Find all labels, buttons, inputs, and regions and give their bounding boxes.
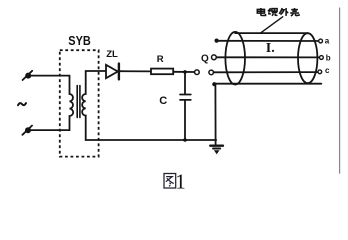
switch terminal Q (212, 55, 217, 60)
svg-text:I.: I. (266, 41, 275, 56)
svg-text:SYB: SYB (68, 33, 91, 48)
transformer primary winding + wires to terminals (30, 76, 73, 131)
svg-text:b: b (326, 53, 331, 62)
wire c (to cable) (214, 71, 319, 73)
connector terminal (right of gap) (209, 70, 214, 75)
glyph 电 (257, 8, 265, 16)
capacitor C (180, 72, 191, 141)
wire b (to cable) (216, 56, 319, 58)
svg-text:Q: Q (201, 54, 209, 65)
cable shell right ellipse (298, 33, 317, 83)
terminal J2 (AC input bottom) (22, 126, 32, 135)
svg-text:a: a (325, 37, 330, 46)
glyph 图 (164, 174, 176, 189)
cable shell cylinder bottom line (214, 83, 321, 85)
AC source label ~ (18, 103, 26, 105)
wire diode to resistor (120, 70, 151, 72)
ground symbol (210, 146, 223, 155)
wire resistor to terminal circle (173, 71, 194, 73)
wire a (to cable) (217, 40, 319, 42)
connector terminal (left of gap) (195, 70, 200, 75)
transformer core (77, 86, 80, 118)
terminal c (right) (318, 70, 322, 74)
terminal a (right) (319, 39, 323, 43)
svg-text:C: C (159, 95, 167, 107)
diode ZL (106, 64, 119, 80)
glyph 壳 (290, 8, 299, 16)
svg-text:1: 1 (175, 169, 186, 193)
caption 图1 (164, 174, 176, 189)
ground shell drop wire (214, 84, 216, 146)
resistor R (151, 69, 173, 75)
terminal J1 (AC input top) (23, 71, 33, 80)
terminal b (right) (320, 56, 324, 60)
transformer secondary winding + top wire to diode + bottom wire (82, 71, 216, 140)
svg-text:c: c (325, 66, 330, 75)
node a (wire a left end) (215, 39, 219, 43)
transformer T1 dashed enclosure (60, 50, 99, 156)
glyph 外 (279, 8, 288, 16)
label 电缆外壳 (hand-drawn glyphs) (257, 8, 299, 16)
cable shell left ellipse (225, 32, 245, 85)
svg-text:ZL: ZL (106, 49, 118, 60)
svg-text:R: R (157, 54, 164, 65)
cable shell cylinder top line (235, 32, 308, 34)
junction node (183, 70, 187, 74)
node (shell to ground tap) (212, 82, 216, 86)
junction node (capacitor to bottom rail) (183, 138, 187, 142)
border line (right page edge) (339, 8, 341, 173)
glyph 缆 (268, 8, 277, 16)
leader line (label to shell) (260, 17, 282, 33)
